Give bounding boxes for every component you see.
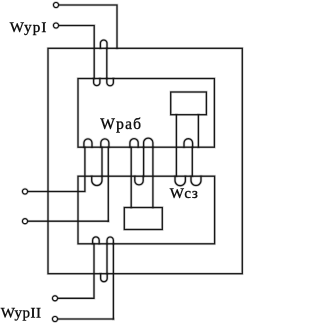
svg-text:WypI: WypI (10, 20, 48, 36)
svg-text:Wсз: Wсз (170, 186, 199, 202)
svg-text:Wраб: Wраб (100, 116, 142, 133)
schematic ink pass (23, 3, 243, 322)
svg-text:WypII: WypII (1, 306, 42, 322)
schematic haze pass (23, 3, 243, 322)
